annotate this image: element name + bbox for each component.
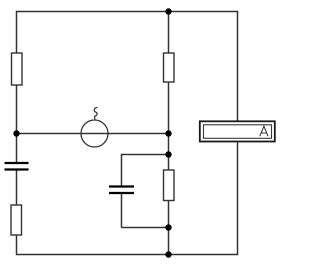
wire right branch lower [237, 142, 239, 256]
wire capacitor loop top [122, 154, 169, 156]
resistor R1 [12, 53, 23, 85]
wire middle branch lower [168, 201, 170, 255]
wire bottom rail [16, 254, 238, 256]
resistor R3 [164, 170, 175, 201]
capacitor C2 [109, 187, 134, 194]
wire left branch upper [16, 11, 18, 54]
AC source G1 squiggle [94, 107, 97, 119]
node junction dot top middle [165, 8, 171, 14]
ammeter A1 label A [260, 126, 268, 136]
wire capacitor loop bottom [122, 227, 169, 229]
node junction dot middle at capacitor loop bottom [165, 224, 171, 230]
wire left branch bottom [16, 235, 18, 254]
resistor R2 [164, 53, 175, 82]
AC source G1 circle [81, 120, 108, 147]
wire capacitor loop left upper [121, 154, 123, 186]
node junction dot middle at capacitor loop top [165, 151, 171, 157]
wire source branch [17, 133, 169, 135]
wire left branch mid [16, 85, 18, 162]
node junction dot bottom middle [165, 251, 171, 257]
node junction dot middle at source branch [165, 130, 171, 136]
wire middle branch mid [168, 82, 170, 171]
ammeter A1 inner box [204, 125, 272, 139]
capacitor C1 [5, 163, 29, 170]
wire right branch upper [237, 11, 239, 121]
wire middle branch upper [168, 11, 170, 54]
node junction dot left mid [13, 130, 19, 136]
wire capacitor loop left lower [121, 194, 123, 228]
ammeter A1 outer box [200, 121, 275, 141]
wire top rail [17, 11, 238, 13]
wire left branch lower [16, 171, 18, 206]
resistor R4 [11, 205, 22, 235]
